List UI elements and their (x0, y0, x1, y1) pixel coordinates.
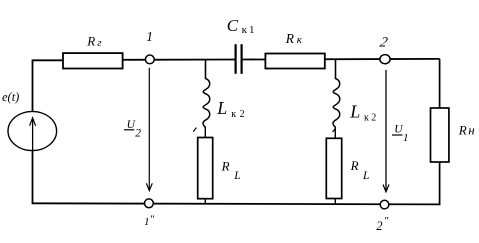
label Lk2 (branch 2) (349, 101, 376, 123)
wire right vertical from corner to Rn (439, 59, 441, 109)
label Rg (86, 34, 102, 49)
svg-text:1: 1 (146, 29, 153, 44)
node 2 (380, 55, 390, 64)
wire branch 2 between coil and RL (334, 126, 336, 139)
resistor Rn (431, 108, 449, 162)
svg-text:1: 1 (144, 216, 150, 228)
node 1 (145, 55, 154, 64)
svg-text:L: L (216, 98, 227, 118)
svg-text:к: к (231, 109, 236, 120)
svg-text:L: L (362, 170, 369, 182)
svg-text:U: U (127, 119, 136, 131)
wire top from capacitor right plate to top-right corner (242, 58, 440, 61)
svg-text:к: к (364, 112, 369, 123)
resistor Rk (265, 54, 324, 69)
wire right vertical from Rn to bottom rail (439, 162, 441, 205)
label U1 (392, 123, 409, 144)
label RL (branch 1) (221, 158, 241, 182)
svg-text:к1: к1 (242, 24, 257, 36)
svg-text:R: R (86, 34, 95, 49)
svg-text:2: 2 (371, 112, 376, 123)
svg-text:U: U (394, 123, 403, 135)
tick mark near branch 2 coil bottom (333, 128, 336, 132)
label U2 (124, 119, 141, 140)
wire left vertical below source (32, 150, 34, 203)
svg-text:2: 2 (240, 109, 245, 120)
label node 2" (376, 215, 389, 233)
label node 1 (146, 29, 153, 44)
wire branch 1 top stub (205, 59, 207, 79)
svg-text:2: 2 (378, 34, 389, 50)
resistor RL (branch 2) (326, 138, 341, 198)
svg-text:″: ″ (385, 215, 390, 227)
wire branch 2 bottom stub (334, 199, 336, 205)
svg-text:L: L (349, 101, 360, 121)
label Ck1 (227, 16, 257, 36)
label Lk2 (branch 1) (216, 98, 244, 120)
label RL (branch 2) (350, 158, 370, 182)
label Rk (285, 31, 303, 46)
svg-text:2: 2 (376, 219, 382, 233)
wire branch 2 top stub (335, 59, 337, 79)
inductor Lk2 (branch 1 coil) (203, 79, 210, 127)
svg-text:R: R (285, 31, 295, 46)
wire top from Rg to capacitor left plate (123, 59, 236, 61)
label node 2 (378, 34, 389, 50)
arrow U1 from node 2 down to node 2" (383, 70, 389, 192)
svg-text:г: г (97, 37, 102, 49)
svg-text:к: к (297, 34, 303, 46)
resistor RL (branch 1) (198, 138, 213, 199)
svg-text:C: C (227, 16, 239, 35)
wire top-left from source corner to Rg (33, 60, 64, 111)
svg-text:L: L (233, 170, 240, 182)
svg-text:R: R (350, 158, 359, 173)
label Rn (458, 122, 476, 137)
resistor Rg (63, 53, 123, 68)
tick mark near branch 1 coil bottom (193, 128, 196, 132)
node 1" (145, 199, 154, 208)
svg-text:e(t): e(t) (2, 90, 19, 104)
wire branch 1 bottom stub (204, 199, 206, 204)
svg-text:″: ″ (150, 214, 155, 226)
wire branch 1 between coil and RL (204, 126, 206, 138)
voltage source e(t) (8, 111, 57, 150)
svg-text:1: 1 (403, 132, 409, 144)
capacitor Ck1 (236, 44, 242, 74)
svg-text:Rн: Rн (458, 122, 476, 137)
arrow U2 from node 1 down to node 1" (146, 68, 152, 191)
svg-text:2: 2 (135, 127, 141, 139)
label node 1" (144, 214, 155, 229)
svg-text:R: R (221, 158, 230, 173)
wire bottom rail (32, 203, 441, 204)
label e(t) (2, 90, 19, 104)
inductor Lk2 (branch 2 coil) (333, 79, 340, 127)
node 2" (380, 200, 389, 209)
